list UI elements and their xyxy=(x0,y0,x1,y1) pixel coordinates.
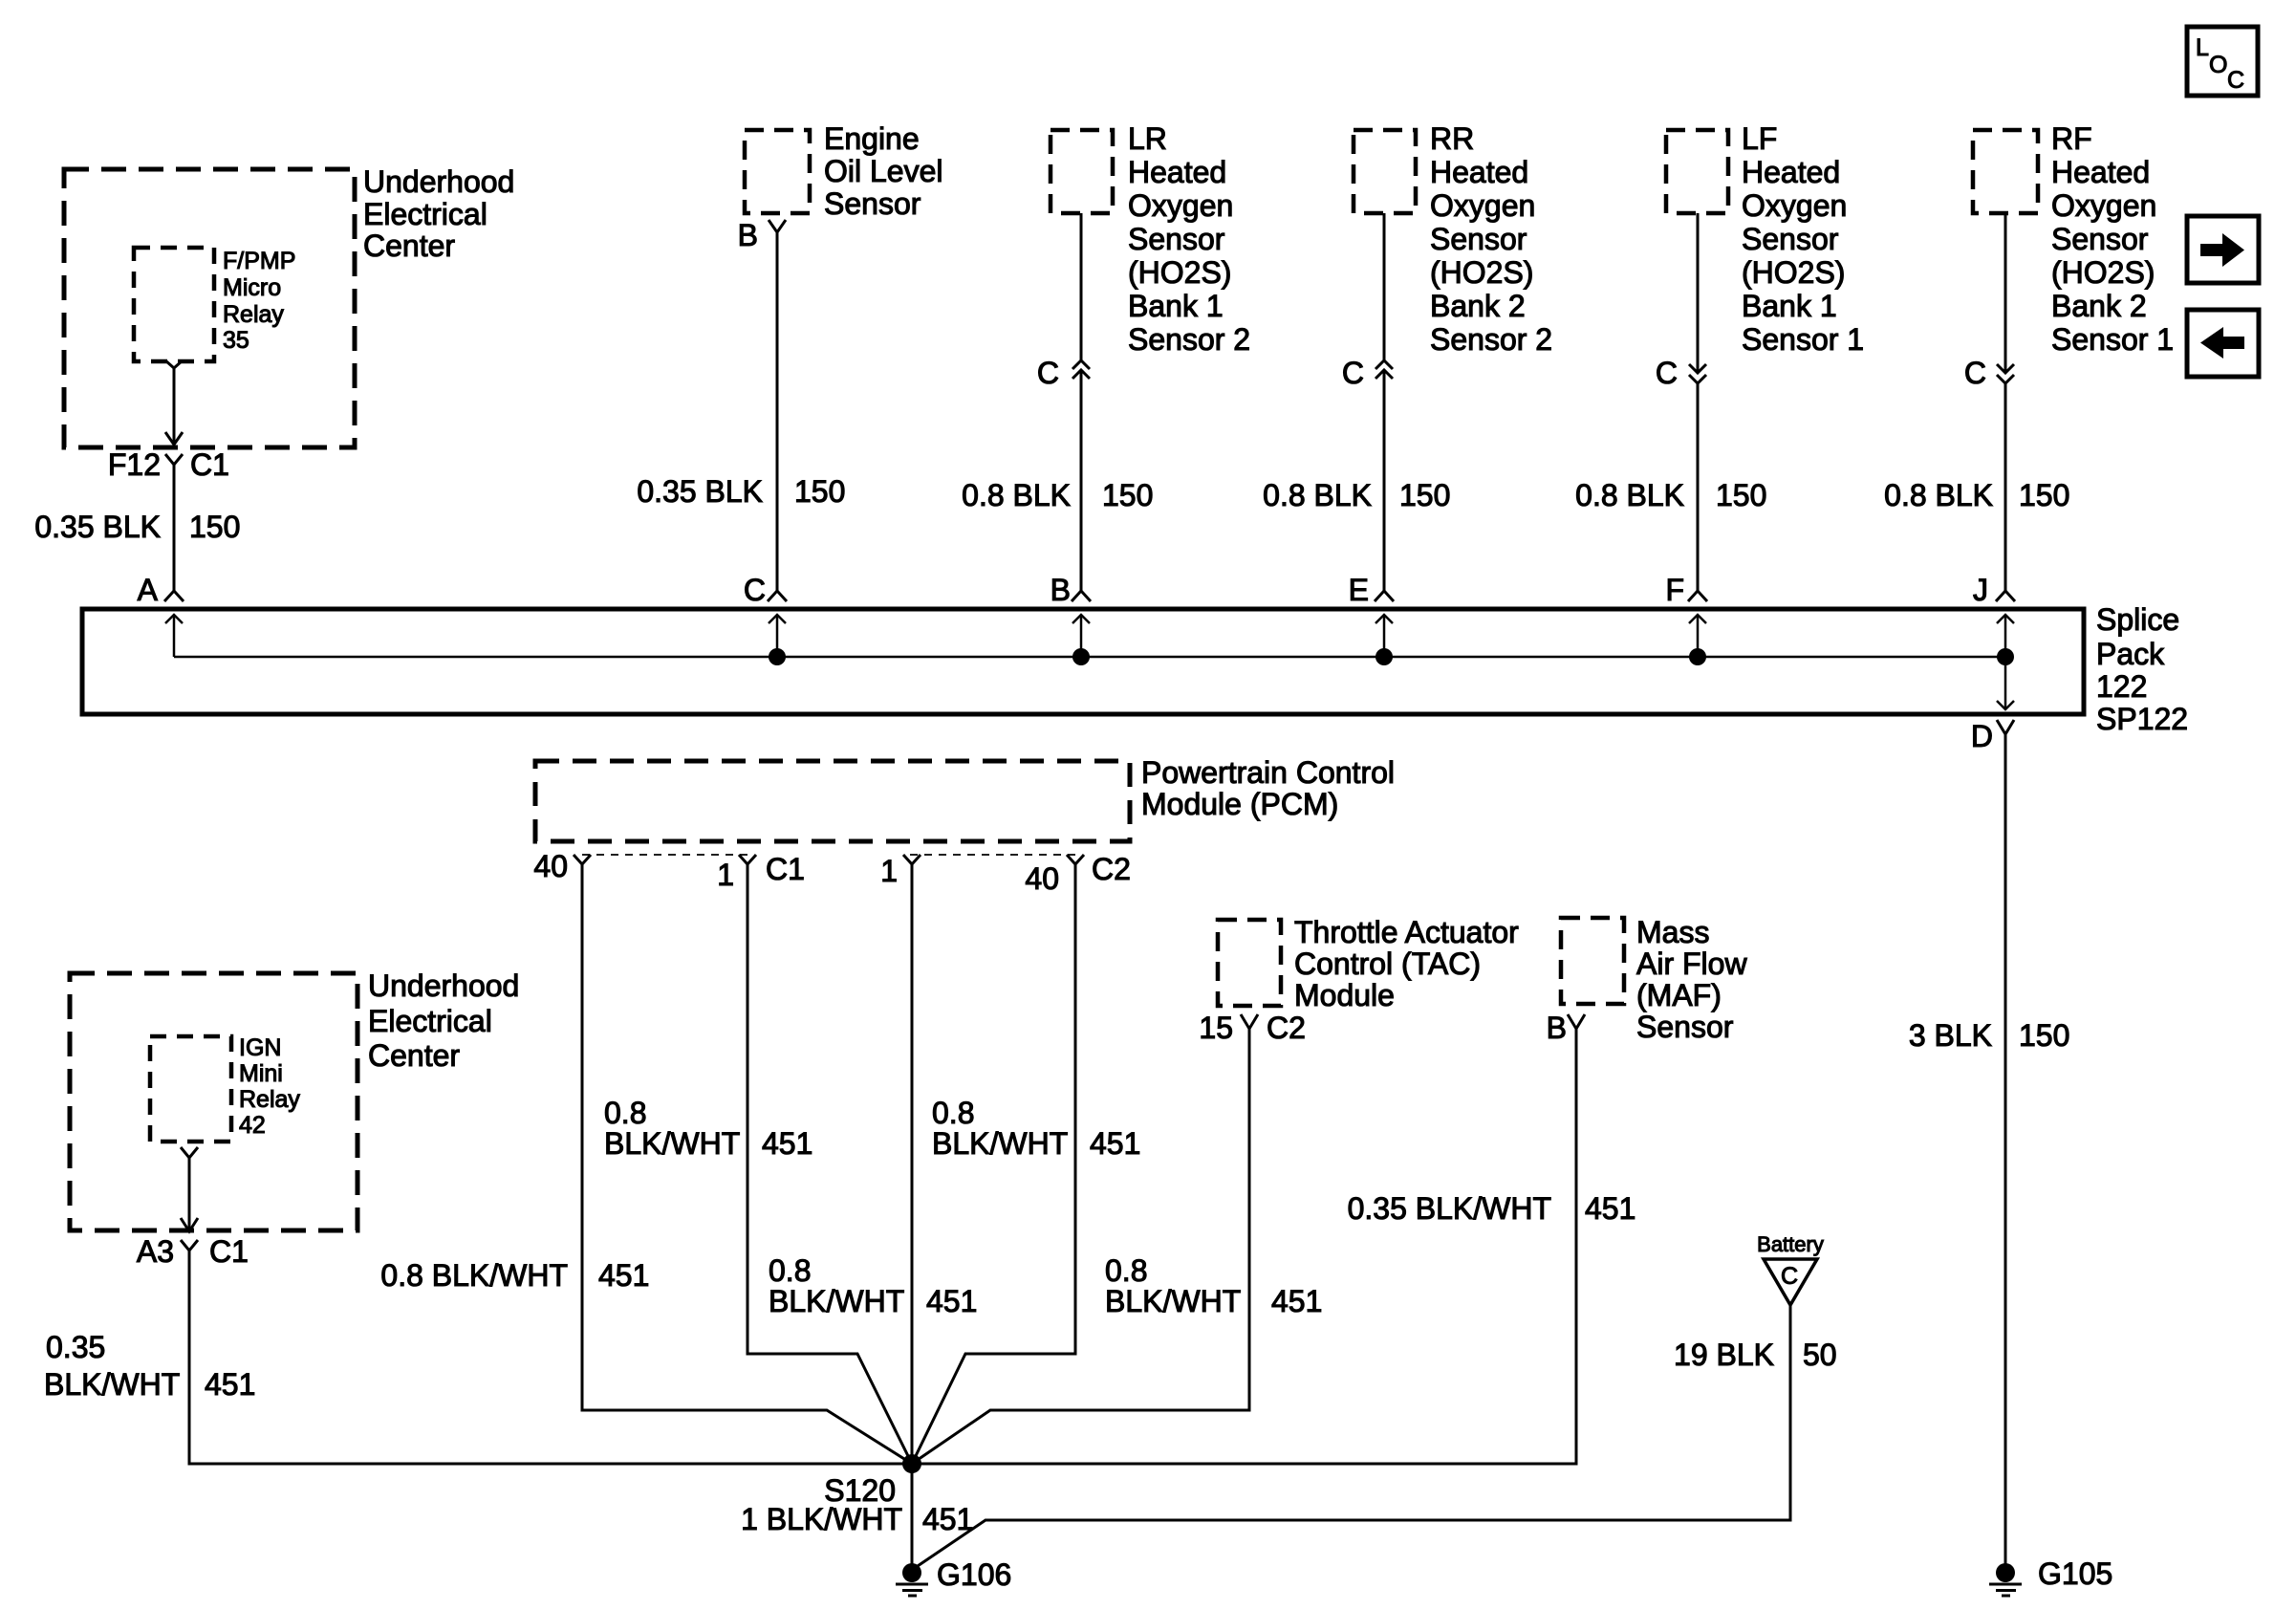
svg-text:40: 40 xyxy=(533,849,568,883)
svg-text:15: 15 xyxy=(1199,1011,1233,1045)
ground G106 xyxy=(896,1557,1011,1596)
wire 0.35 BLK 150 oil sensor to splice C xyxy=(637,232,845,591)
svg-text:B: B xyxy=(738,218,758,252)
svg-text:451: 451 xyxy=(1090,1126,1140,1161)
LOC legend box xyxy=(2187,27,2258,96)
svg-text:C: C xyxy=(1037,356,1059,390)
svg-text:0.8: 0.8 xyxy=(769,1253,811,1288)
svg-text:BLK/WHT: BLK/WHT xyxy=(604,1126,740,1161)
svg-text:C1: C1 xyxy=(766,852,805,886)
svg-text:F: F xyxy=(1665,573,1684,607)
svg-text:0.8: 0.8 xyxy=(1105,1253,1147,1288)
svg-text:150: 150 xyxy=(1716,478,1766,512)
svg-text:Powertrain Control: Powertrain Control xyxy=(1141,755,1395,790)
wire 0.35 BLK 150 from F12 to splice A xyxy=(34,465,240,591)
svg-text:451: 451 xyxy=(1585,1191,1635,1226)
RF heated oxygen sensor box xyxy=(1973,121,2174,357)
svg-text:Heated: Heated xyxy=(1128,155,1226,189)
svg-text:BLK/WHT: BLK/WHT xyxy=(932,1126,1068,1161)
svg-text:C: C xyxy=(1656,356,1678,390)
svg-text:LR: LR xyxy=(1128,121,1167,156)
svg-text:Sensor: Sensor xyxy=(1636,1010,1734,1044)
svg-text:A: A xyxy=(138,573,159,607)
node D exit connector xyxy=(1971,719,2014,753)
svg-text:Heated: Heated xyxy=(2051,155,2150,189)
battery symbol C xyxy=(1757,1232,1824,1305)
wire 0.8 BLK 150 LF to splice F xyxy=(1575,213,1766,591)
bus arrow at B xyxy=(1072,615,1090,657)
bus arrow at A xyxy=(165,615,183,657)
svg-text:Module (PCM): Module (PCM) xyxy=(1141,787,1338,821)
svg-text:Underhood: Underhood xyxy=(368,968,519,1003)
svg-text:451: 451 xyxy=(922,1502,973,1536)
svg-text:Sensor: Sensor xyxy=(1128,222,1225,256)
svg-text:Electrical: Electrical xyxy=(363,197,487,231)
svg-text:Center: Center xyxy=(368,1038,460,1073)
svg-text:0.8: 0.8 xyxy=(604,1096,646,1130)
ground G105 xyxy=(1989,1556,2112,1596)
svg-text:B: B xyxy=(1051,573,1071,607)
connector C on LF wire xyxy=(1656,356,1706,390)
svg-text:Throttle Actuator: Throttle Actuator xyxy=(1294,915,1519,949)
svg-text:0.8 BLK: 0.8 BLK xyxy=(962,478,1071,512)
svg-text:150: 150 xyxy=(2019,1018,2069,1053)
wire relay to UEC bottom with arrow xyxy=(181,1158,198,1231)
svg-text:0.8: 0.8 xyxy=(932,1096,974,1130)
svg-text:Sensor: Sensor xyxy=(2051,222,2149,256)
LR heated oxygen sensor box xyxy=(1051,121,1250,357)
pin 1 C2 connector xyxy=(880,854,921,888)
svg-text:0.35: 0.35 xyxy=(46,1330,105,1364)
wire 3 BLK 150 from D to G105 xyxy=(1909,734,2070,1573)
svg-text:Underhood: Underhood xyxy=(363,164,514,199)
svg-text:C1: C1 xyxy=(190,447,229,482)
svg-text:C: C xyxy=(744,573,766,607)
svg-text:3 BLK: 3 BLK xyxy=(1909,1018,1992,1053)
svg-text:Sensor 2: Sensor 2 xyxy=(1430,322,1552,357)
svg-text:E: E xyxy=(1349,573,1369,607)
svg-text:Sensor 2: Sensor 2 xyxy=(1128,322,1250,357)
svg-text:150: 150 xyxy=(189,510,240,544)
svg-text:150: 150 xyxy=(794,474,845,509)
svg-text:(HO2S): (HO2S) xyxy=(2051,255,2155,290)
svg-text:C2: C2 xyxy=(1267,1011,1306,1045)
svg-text:Sensor 1: Sensor 1 xyxy=(1742,322,1864,357)
bus arrow at J xyxy=(1997,615,2014,657)
svg-text:Center: Center xyxy=(363,228,455,263)
svg-text:Relay: Relay xyxy=(239,1086,300,1113)
connector C on LR wire xyxy=(1037,356,1090,390)
svg-text:42: 42 xyxy=(239,1112,266,1139)
svg-text:0.35 BLK/WHT: 0.35 BLK/WHT xyxy=(1348,1191,1551,1226)
wire 0.8 BLK 150 LR to splice B xyxy=(962,213,1153,591)
svg-text:451: 451 xyxy=(926,1284,977,1318)
svg-text:Mini: Mini xyxy=(239,1060,283,1087)
svg-text:(HO2S): (HO2S) xyxy=(1742,255,1845,290)
pin 1 C1 connector xyxy=(717,852,805,892)
bus exit arrow to D xyxy=(1997,657,2014,709)
svg-text:Micro: Micro xyxy=(223,274,281,301)
node A entry connector xyxy=(138,573,184,607)
svg-text:451: 451 xyxy=(1271,1284,1322,1318)
svg-text:A3: A3 xyxy=(137,1234,174,1269)
junction dot B xyxy=(1072,648,1090,665)
svg-text:(MAF): (MAF) xyxy=(1636,978,1722,1012)
splice S120 xyxy=(824,1454,921,1508)
svg-text:0.35 BLK: 0.35 BLK xyxy=(34,510,161,544)
bus arrow at C xyxy=(769,615,786,657)
splice pack 122 SP122 box xyxy=(82,602,2188,736)
junction dot J xyxy=(1997,648,2014,665)
wire 0.35 BLK/WHT 451 from A3 to S120 xyxy=(44,1251,912,1464)
connector B of oil level sensor xyxy=(738,218,786,252)
svg-text:Oxygen: Oxygen xyxy=(2051,188,2156,223)
wire 0.8 BLK 150 RR to splice E xyxy=(1263,213,1450,591)
svg-text:(HO2S): (HO2S) xyxy=(1430,255,1533,290)
svg-text:SP122: SP122 xyxy=(2096,702,2188,736)
svg-text:Pack: Pack xyxy=(2096,637,2165,671)
bus arrow at F xyxy=(1689,615,1706,657)
svg-text:Air Flow: Air Flow xyxy=(1636,946,1747,981)
svg-text:RR: RR xyxy=(1430,121,1474,156)
svg-text:1 BLK/WHT: 1 BLK/WHT xyxy=(741,1502,902,1536)
pin 40 C2 connector xyxy=(1025,852,1131,896)
svg-text:Sensor 1: Sensor 1 xyxy=(2051,322,2174,357)
svg-text:19 BLK: 19 BLK xyxy=(1674,1338,1774,1372)
wire 0.8 BLK/WHT 451 pin40 C2 to S120 xyxy=(912,864,1140,1464)
wire 0.8 BLK/WHT 451 pin40 C1 to S120 xyxy=(380,864,912,1464)
mass air flow MAF sensor box xyxy=(1561,915,1747,1044)
connector Y below relay xyxy=(165,360,183,368)
svg-text:Electrical: Electrical xyxy=(368,1004,492,1038)
svg-text:IGN: IGN xyxy=(239,1034,281,1061)
PCM C1 connector bracket xyxy=(582,854,747,856)
svg-text:40: 40 xyxy=(1025,861,1059,896)
svg-text:C: C xyxy=(1342,356,1364,390)
svg-text:Heated: Heated xyxy=(1742,155,1840,189)
svg-text:Oxygen: Oxygen xyxy=(1430,188,1535,223)
wire 0.8 BLK/WHT 451 pin1 C1 to S120 xyxy=(604,864,912,1464)
svg-text:Relay: Relay xyxy=(223,301,284,328)
connector C on RF wire xyxy=(1964,356,2014,390)
svg-text:RF: RF xyxy=(2051,121,2092,156)
node J entry connector xyxy=(1973,573,2015,607)
svg-text:L: L xyxy=(2196,34,2209,61)
svg-text:Oil Level: Oil Level xyxy=(824,154,943,188)
svg-text:Splice: Splice xyxy=(2096,602,2179,637)
node E entry connector xyxy=(1349,573,1394,607)
svg-text:Battery: Battery xyxy=(1757,1232,1824,1256)
wire 0.35 BLK/WHT 451 MAF to S120 xyxy=(912,1029,1635,1464)
svg-text:Mass: Mass xyxy=(1636,915,1709,949)
svg-text:451: 451 xyxy=(598,1258,649,1293)
svg-text:C: C xyxy=(1964,356,1986,390)
svg-text:BLK/WHT: BLK/WHT xyxy=(769,1284,904,1318)
wire 0.8 BLK/WHT 451 TAC to S120 xyxy=(912,1029,1322,1464)
wire relay to UEC bottom with arrow xyxy=(165,368,183,445)
svg-text:Bank 1: Bank 1 xyxy=(1128,289,1224,323)
svg-text:Sensor: Sensor xyxy=(824,186,921,221)
svg-text:150: 150 xyxy=(1399,478,1450,512)
svg-text:451: 451 xyxy=(762,1126,812,1161)
svg-text:150: 150 xyxy=(1102,478,1153,512)
powertrain control module PCM box xyxy=(535,755,1395,841)
wire 19 BLK 50 battery to G106 xyxy=(915,1305,1837,1568)
svg-text:35: 35 xyxy=(223,327,249,354)
node B entry connector xyxy=(1051,573,1091,607)
connector A3 / C1 xyxy=(137,1234,249,1269)
arrow button right xyxy=(2187,216,2259,283)
svg-text:BLK/WHT: BLK/WHT xyxy=(1105,1284,1241,1318)
throttle actuator control TAC module box xyxy=(1218,915,1519,1012)
svg-text:50: 50 xyxy=(1803,1338,1837,1372)
svg-text:451: 451 xyxy=(205,1367,255,1402)
splice bus wire xyxy=(174,656,2005,659)
pin 40 C1 connector xyxy=(533,849,591,883)
junction dot C xyxy=(769,648,786,665)
svg-text:C2: C2 xyxy=(1092,852,1131,886)
svg-text:122: 122 xyxy=(2096,669,2147,704)
arrow button left xyxy=(2187,310,2259,377)
wire 1 BLK/WHT 451 S120 to G106 xyxy=(741,1502,973,1536)
connector Y below IGN relay xyxy=(181,1147,198,1158)
svg-text:F/PMP: F/PMP xyxy=(223,248,295,274)
svg-text:(HO2S): (HO2S) xyxy=(1128,255,1231,290)
PCM C2 connector bracket xyxy=(910,854,1075,856)
svg-text:G106: G106 xyxy=(937,1557,1011,1592)
svg-text:O: O xyxy=(2209,52,2227,78)
svg-text:0.35 BLK: 0.35 BLK xyxy=(637,474,763,509)
svg-text:B: B xyxy=(1547,1011,1567,1045)
underhood electrical center box (lower) xyxy=(70,968,519,1230)
relay F/PMP Micro Relay 35 xyxy=(134,248,295,361)
svg-text:1: 1 xyxy=(717,858,734,892)
LF heated oxygen sensor box xyxy=(1666,121,1864,357)
svg-text:G105: G105 xyxy=(2038,1556,2112,1591)
svg-text:Bank 2: Bank 2 xyxy=(1430,289,1526,323)
svg-text:C: C xyxy=(2227,67,2244,94)
node F entry connector xyxy=(1665,573,1707,607)
connector F12 / C1 xyxy=(108,447,229,482)
svg-text:BLK/WHT: BLK/WHT xyxy=(44,1367,180,1402)
svg-text:F12: F12 xyxy=(108,447,161,482)
svg-text:Sensor: Sensor xyxy=(1742,222,1839,256)
svg-text:Bank 2: Bank 2 xyxy=(2051,289,2147,323)
connector C on RR wire xyxy=(1342,356,1393,390)
svg-text:Control (TAC): Control (TAC) xyxy=(1294,946,1481,981)
wire 0.8 BLK 150 RF to splice J xyxy=(1884,213,2069,591)
svg-text:0.8 BLK/WHT: 0.8 BLK/WHT xyxy=(380,1258,568,1293)
svg-text:Oxygen: Oxygen xyxy=(1128,188,1233,223)
engine oil level sensor box xyxy=(745,121,943,221)
pin 15 C2 connector of TAC xyxy=(1199,1011,1306,1045)
svg-text:Module: Module xyxy=(1294,978,1395,1012)
svg-text:Oxygen: Oxygen xyxy=(1742,188,1847,223)
underhood electrical center box (top) xyxy=(64,164,514,447)
svg-text:Heated: Heated xyxy=(1430,155,1528,189)
svg-text:1: 1 xyxy=(880,854,898,888)
svg-text:Engine: Engine xyxy=(824,121,920,156)
svg-text:0.8 BLK: 0.8 BLK xyxy=(1575,478,1684,512)
svg-text:LF: LF xyxy=(1742,121,1777,156)
node C entry connector xyxy=(744,573,787,607)
svg-text:Sensor: Sensor xyxy=(1430,222,1527,256)
svg-text:D: D xyxy=(1971,719,1993,753)
junction dot E xyxy=(1375,648,1393,665)
svg-text:C1: C1 xyxy=(209,1234,249,1269)
svg-text:J: J xyxy=(1973,573,1988,607)
bus arrow at E xyxy=(1375,615,1393,657)
relay IGN Mini Relay 42 xyxy=(150,1034,300,1142)
svg-text:0.8 BLK: 0.8 BLK xyxy=(1263,478,1372,512)
svg-text:0.8 BLK: 0.8 BLK xyxy=(1884,478,1993,512)
junction dot F xyxy=(1689,648,1706,665)
RR heated oxygen sensor box xyxy=(1354,121,1552,357)
svg-text:Bank 1: Bank 1 xyxy=(1742,289,1837,323)
wire 0.8 BLK/WHT 451 pin1 C2 to S120 and G106 xyxy=(769,864,977,1573)
pin B connector of MAF xyxy=(1547,1011,1585,1045)
svg-text:150: 150 xyxy=(2019,478,2069,512)
svg-text:C: C xyxy=(1781,1263,1798,1290)
